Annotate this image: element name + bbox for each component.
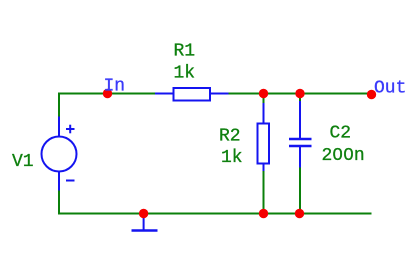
svg-text:1k: 1k <box>221 148 243 168</box>
node Out junction dot <box>367 90 376 99</box>
svg-text:In: In <box>104 77 126 97</box>
voltage source V1 <box>42 117 77 191</box>
wire V1 bottom to ground rail <box>58 190 60 215</box>
label C2 <box>330 124 352 144</box>
node junction dot R2 bottom <box>259 209 268 218</box>
node junction dot C2 top <box>295 89 304 98</box>
svg-text:R2: R2 <box>219 127 241 147</box>
label R1 value 1k <box>174 64 196 84</box>
wire top-left (In node to V1 branch) <box>58 93 157 95</box>
svg-text:Out: Out <box>374 79 406 99</box>
label R1 <box>174 42 196 62</box>
label R2 value 1k <box>221 148 243 168</box>
node junction dot R1/R2 top <box>259 89 268 98</box>
wire C2 top stub <box>299 94 301 103</box>
node junction dot ground <box>139 209 148 218</box>
ground <box>132 214 158 231</box>
svg-text:C2: C2 <box>330 124 352 144</box>
node junction dot C2 bottom <box>295 209 304 218</box>
node In label <box>104 77 126 97</box>
node In junction dot <box>103 89 112 98</box>
resistor R1 <box>155 88 229 101</box>
node Out label <box>374 79 406 99</box>
label C2 value 200n <box>322 146 365 166</box>
svg-text:V1: V1 <box>12 152 34 172</box>
label V1 <box>12 152 34 172</box>
svg-text:200n: 200n <box>322 146 365 166</box>
wire bottom rail <box>58 213 372 215</box>
wire R2 top stub <box>263 94 265 105</box>
capacitor C2 <box>289 101 312 168</box>
wire top-right (R1 to Out) <box>228 93 372 95</box>
wire C2 bottom <box>299 167 301 214</box>
label R2 <box>219 127 241 147</box>
resistor R2 <box>258 103 270 171</box>
svg-text:R1: R1 <box>174 42 196 62</box>
wire R2 bottom <box>263 170 265 214</box>
wire left vertical (In corner down to V1) <box>58 93 60 118</box>
svg-text:1k: 1k <box>174 64 196 84</box>
